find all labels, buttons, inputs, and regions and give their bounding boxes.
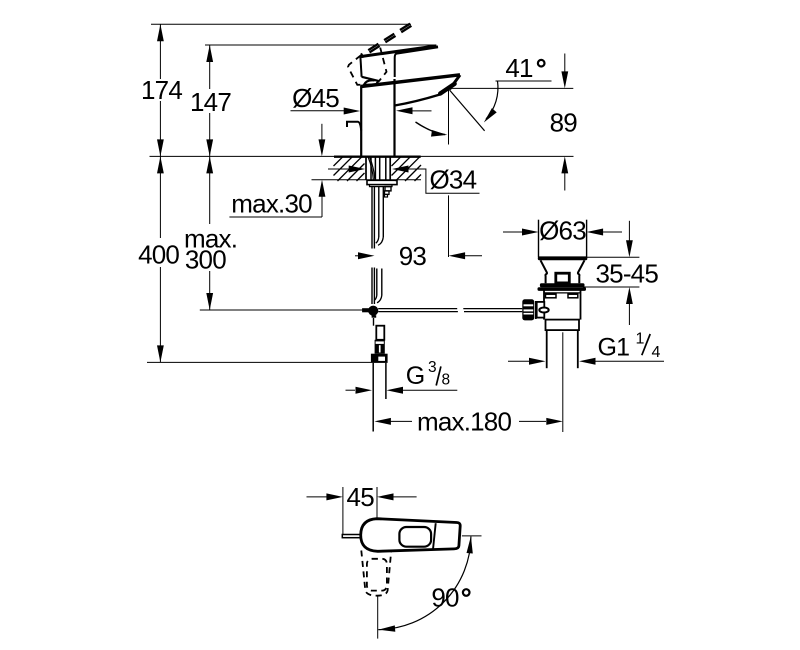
dimension G3/8 (346, 389, 356, 391)
spout tip edge (450, 75, 460, 89)
extension line (147 lever tip level) (205, 44, 436, 46)
dimension Ø34 arrows at shank (328, 168, 350, 170)
41 deg diagonal (flow axis) (450, 90, 485, 131)
handle outline (top view) (361, 519, 461, 552)
svg-text:35-45: 35-45 (596, 258, 659, 288)
handle base rotated (dashed outline) (348, 48, 387, 85)
svg-text:147: 147 (190, 87, 231, 117)
spout outlet vertical extension line (448, 89, 450, 145)
handle rotated 90 deg (dashed, top view) (361, 551, 391, 596)
deck / countertop line (150, 155, 574, 157)
svg-text:45: 45 (347, 482, 375, 512)
plug lift knob (556, 273, 570, 283)
dimension 89 (564, 54, 566, 73)
svg-text:4: 4 (652, 344, 661, 361)
faucet body right edge (393, 79, 395, 156)
dimension 93 (355, 255, 360, 257)
horizontal reference line for angle (449, 87, 573, 89)
dimension max.180 (374, 418, 391, 425)
drain centre line / max.180 extension (562, 332, 564, 432)
handle lever raised 41 deg (dashed, outline) (362, 26, 411, 57)
faucet body left edge (360, 86, 362, 157)
supply hose 2 (cut) (376, 269, 378, 296)
svg-text:93: 93 (399, 241, 427, 271)
lower rod section (376, 326, 384, 340)
drain flange bottom (thick band) (538, 256, 588, 260)
svg-text:41: 41 (505, 53, 533, 83)
dimension 45 (342, 487, 344, 534)
extension line 400 bottom (hose connection level) (147, 361, 371, 363)
svg-text:89: 89 (550, 107, 578, 137)
Ø45 right arrow with tail (396, 107, 413, 114)
supply hose (short, cut) (378, 187, 380, 237)
handle dome / cartridge cover (364, 80, 375, 85)
extension line below dashed handle (377, 596, 379, 639)
pivot stub below ball (372, 315, 377, 318)
max.30 upper arrow (above deck) (321, 124, 323, 141)
washer band under nut (370, 185, 393, 187)
dimension max.300 vertical line (206, 156, 213, 310)
svg-text:174: 174 (141, 75, 182, 105)
rod link below ball (373, 318, 375, 326)
svg-text:max.180: max.180 (417, 406, 511, 436)
handle loop hole (top view) (399, 527, 431, 547)
pop-up waste drain: flange side/extension lines (538, 220, 540, 257)
overflow slots (546, 294, 557, 298)
tailpipe coupling (546, 320, 580, 331)
svg-text:400: 400 (138, 239, 179, 269)
svg-text:3: 3 (428, 359, 437, 376)
pop-up pull rod (upper) (371, 187, 373, 249)
svg-text:1: 1 (636, 331, 645, 348)
rod clamp knurled knob (522, 299, 534, 320)
dimension 174 vertical line (157, 24, 164, 156)
Ø63 arrows (503, 231, 524, 233)
svg-text:8: 8 (442, 372, 451, 389)
hose adapter steps (385, 187, 391, 191)
clamp set screw (ellipse) (539, 308, 548, 313)
supply pipe below nut (372, 363, 374, 432)
41 deg angle arc with arrow (486, 81, 498, 119)
deck hatching left of shank (334, 157, 365, 181)
shank nut under deck (367, 180, 397, 184)
handle stub (top view, spout nose) (342, 535, 361, 538)
Ø45 left arrow (344, 108, 361, 115)
spout outlet flow arrow (curved) (416, 122, 446, 135)
deck top edge thick segment at mounting zone (334, 156, 421, 158)
90 deg arc with arrows (378, 537, 471, 630)
pivot lever arm left bar (362, 308, 369, 312)
extension line top (174 max height, dashed-lever tip level) (151, 23, 411, 25)
dimension G1 1/4 (508, 360, 532, 362)
handle divider line (433, 523, 436, 549)
svg-text:300: 300 (185, 244, 226, 274)
Ø34 leader and label (406, 169, 480, 193)
mounting tab on body left (347, 122, 361, 131)
dimension 35-45 (587, 256, 640, 258)
deck hatching right of shank (392, 157, 422, 181)
clamp collar bar (535, 301, 537, 319)
dimension 147 vertical line (206, 45, 213, 156)
pop-up pivot ball joint (368, 306, 378, 316)
aerator outlet face (thick) (440, 84, 454, 94)
drain body below washer (543, 290, 545, 319)
svg-text:G: G (406, 362, 425, 390)
G3/8 connection nut (371, 354, 388, 363)
svg-text:Ø45: Ø45 (292, 83, 339, 113)
deck underside line (312, 179, 422, 181)
41 deg underline (496, 80, 552, 82)
dimension 400 vertical line (157, 156, 164, 362)
seal washer (two black bands) (540, 283, 585, 287)
svg-text:Ø34: Ø34 (430, 164, 477, 194)
svg-text:G1: G1 (598, 334, 630, 362)
handle lever (solid, horizontal position) (360, 46, 437, 81)
svg-text:90: 90 (431, 583, 459, 613)
tailpipe walls (546, 330, 548, 368)
pop-up pull rod (lower) (371, 268, 373, 305)
extension line max.300 bottom (pop-up pivot level) (200, 309, 363, 311)
faucet shank through deck (threaded, hoses) (366, 157, 390, 180)
adjustment screw section (dark) (375, 340, 385, 354)
spout underside curve (395, 95, 440, 106)
90 deg reference line (462, 535, 482, 537)
svg-text:max.30: max.30 (231, 189, 312, 219)
drain taper below flange (541, 260, 547, 283)
clamp housing (537, 302, 545, 318)
faucet body/spout top edge (thick) (361, 75, 460, 87)
svg-text:Ø63: Ø63 (539, 216, 586, 246)
horizontal pop-up rod to drain (with break) (378, 308, 457, 310)
